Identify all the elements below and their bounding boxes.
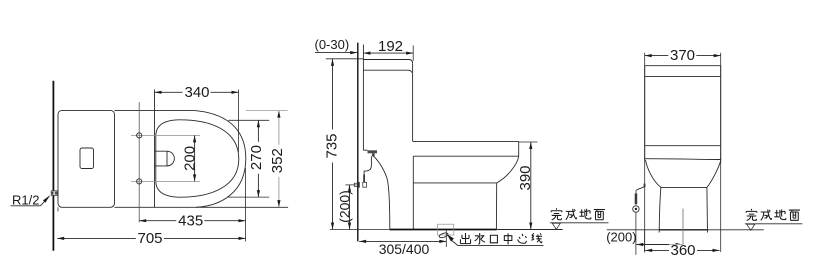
finished floor label (right) [745,209,803,230]
tank rear: right edge + extension down [720,53,722,252]
seat bolt lower [137,179,142,184]
finished floor label (left) [550,208,609,229]
dimension 390 [517,142,537,230]
svg-text:192: 192 [378,38,403,55]
outlet box [438,224,454,235]
seat bottom [413,155,518,157]
floor thick under pedestal [659,229,708,231]
dimension 360 [645,230,720,259]
svg-text:435: 435 [178,212,203,229]
fill valve cap [368,150,378,156]
bowl back curve [373,155,390,229]
dimension 370 [645,47,721,64]
bowl outline bottom edge + 352 lower extension line [115,206,289,208]
outlet ellipse [439,232,449,239]
base bottom / floor under toilet [390,229,497,231]
bowl outline top edge [115,109,194,111]
bowl outline right curve [194,110,246,207]
svg-text:200: 200 [181,146,198,171]
tank rear outline [645,66,721,160]
seat bolt crosshair lines [131,134,200,136]
wall line (top view) [52,81,54,251]
dimension 435 [139,168,245,242]
tank bottom stub [363,149,367,151]
supply pipe from valve down to wall valve [364,156,371,174]
svg-text:305/400: 305/400 [379,241,430,257]
dimension (0-30) [315,37,358,54]
wall angle valve assembly [354,175,366,188]
svg-text:340: 340 [184,84,209,101]
tank top [363,60,412,64]
label R1/2 with leader [11,192,50,207]
flush water inlet D-shape [155,151,175,166]
base front edge [495,183,497,229]
svg-text:705: 705 [137,230,162,247]
base top line [413,182,496,184]
dimension 705 [57,207,245,247]
dimension 192 [363,38,413,61]
dimension (200) rear [606,229,682,246]
outlet center line [445,230,447,247]
wall line (side view) [357,43,359,242]
pedestal top line [661,186,707,188]
tank back edge (also 192 left extension) [362,45,364,151]
cistern tank (top view) [58,110,115,207]
pedestal left edge [659,187,661,232]
svg-text:735: 735 [323,133,340,158]
dimension 270 [227,120,269,197]
floor line left of base [330,229,390,231]
dimension 305/400 [359,240,446,257]
outlet center line (rear) [682,209,684,248]
dimension 200 (bolt spacing) [181,135,198,181]
lid hinge left edge line (also 340 left extension) [154,90,156,208]
bowl front concave curve [497,156,519,183]
flush button [80,148,94,169]
supply valve bar [635,190,638,204]
bowl right curve (rear) [707,160,721,188]
seat bolt upper [137,133,142,138]
tank lid joint line [363,70,411,72]
svg-text:(200): (200) [606,229,636,244]
supply valve circle [633,206,639,212]
seat opening [156,120,239,197]
tank lid joint line (rear) [645,75,721,77]
dimension (200) side [336,185,354,230]
tank front edge [412,63,414,141]
dimension 352 [246,111,288,208]
supply pipe curve down-left [636,187,644,191]
outlet center line label leader [447,233,544,246]
seat top [413,140,519,142]
floor line right of base [497,229,563,231]
svg-text:360: 360 [670,242,695,259]
bowl rim line (rear) [645,158,721,161]
seat front edge [518,141,520,156]
floor line (rear) [607,229,764,231]
R1/2 water inlet fitting square [51,191,57,196]
bowl left curve (rear) [646,160,661,188]
svg-text:370: 370 [670,47,695,64]
svg-text:390: 390 [517,165,534,190]
tank rear: left edge + extension down [644,53,646,253]
supply line down (also (200) left extension) [635,212,637,255]
svg-text:352: 352 [269,148,286,173]
svg-text:270: 270 [248,145,265,170]
dimension 735 [323,59,363,230]
svg-text:(200): (200) [336,190,352,223]
supply tick on tank edge [644,184,646,187]
dimension 340 [155,84,239,152]
svg-text:(0-30): (0-30) [315,37,350,52]
pedestal right edge [706,187,709,232]
bowl/base inner edge [412,156,414,229]
svg-text:R1/2: R1/2 [12,192,39,207]
